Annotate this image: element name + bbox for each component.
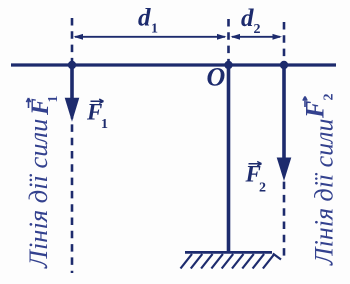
svg-text:1: 1 — [46, 96, 61, 103]
svg-text:2: 2 — [322, 94, 337, 101]
svg-text:O: O — [207, 63, 226, 92]
svg-text:d: d — [241, 5, 254, 32]
svg-text:1: 1 — [151, 22, 158, 37]
svg-text:2: 2 — [259, 181, 266, 196]
svg-text:1: 1 — [101, 117, 108, 132]
svg-text:2: 2 — [254, 22, 261, 37]
svg-text:d: d — [138, 5, 151, 32]
svg-text:Лінія дії сили: Лінія дії сили — [310, 118, 339, 266]
svg-text:Лінія дії сили: Лінія дії сили — [23, 119, 53, 269]
